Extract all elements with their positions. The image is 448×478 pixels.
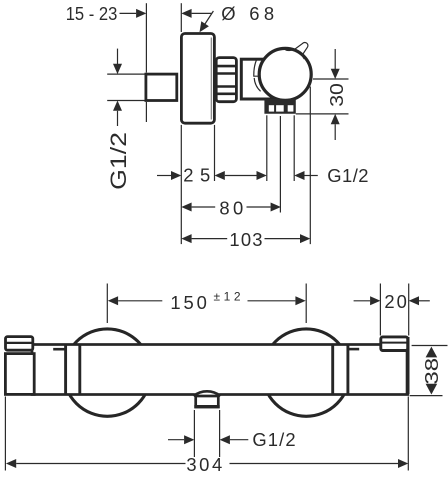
right knob circle: [263, 329, 350, 416]
dim G1/2 right arrow left-pointing: [294, 171, 304, 180]
outlet thread window 3: [288, 105, 294, 111]
dim 38 extension bottom: [410, 395, 443, 397]
leader arrow for diameter 68: [200, 21, 209, 32]
leader line for diameter 68: [203, 11, 213, 27]
dimension 15-23 arrow left-pointing: [181, 9, 191, 18]
dim 103 arrow left-pointing: [181, 234, 191, 243]
dimension 15-23 arrow right-pointing: [136, 9, 146, 18]
dim 304 arrow right-pointing: [398, 459, 408, 468]
outlet stub: [196, 396, 219, 407]
dim 304 line left: [16, 463, 185, 465]
nipple dim stem lower: [117, 111, 119, 126]
dim 38 arrow down: [426, 384, 438, 395]
outlet center line: [279, 116, 281, 213]
extension escutcheon left lower: [180, 125, 182, 244]
dimension 15-23 line left: [120, 12, 137, 14]
knob lever: [286, 42, 308, 59]
svg-text:150: 150: [170, 292, 207, 313]
svg-text:103: 103: [229, 229, 262, 250]
dim G1/2 bottom arrow right-pointing: [184, 435, 194, 444]
dim G1/2 arrow right-pointing: [257, 171, 267, 180]
dim 20 arrow right-pointing: [370, 296, 380, 305]
extension escutcheon right lower: [214, 125, 216, 181]
dim 103 arrow right-pointing: [300, 234, 310, 243]
outlet thread window 2: [276, 105, 284, 111]
dim 30 extension top: [313, 78, 349, 80]
dim 150 extension left: [106, 284, 108, 324]
svg-text:G1/2: G1/2: [252, 429, 295, 450]
left bracket body: [5, 354, 34, 395]
dim 20 arrow left-pointing: [409, 296, 419, 305]
extension line escutcheon left upper: [180, 3, 182, 32]
svg-text:15 - 23: 15 - 23: [66, 3, 118, 24]
outlet stub bottom band: [194, 405, 219, 408]
thread ridge line 4: [216, 93, 236, 96]
thread ridge line 2: [216, 72, 236, 75]
dim 25 arrow left-pointing: [215, 171, 225, 180]
outlet dome eraser: [195, 393, 219, 398]
dim G1/2 bottom stem left: [168, 439, 184, 441]
nipple dim stem upper: [117, 49, 119, 64]
thread ridge line 1: [216, 65, 236, 68]
dim 80 arrow left-pointing: [181, 203, 191, 212]
dimension 15-23 tail: [192, 12, 212, 14]
dim 25 arrow right-pointing: [171, 171, 181, 180]
svg-text:±12: ±12: [214, 290, 241, 304]
extension outlet left: [266, 115, 268, 181]
svg-text:30: 30: [326, 83, 347, 107]
dim 30 arrow up: [331, 114, 340, 124]
dim 38 arrow up: [426, 347, 438, 358]
extension outlet right: [293, 115, 295, 181]
wall nipple: [146, 74, 177, 100]
right collar line inner: [331, 346, 334, 394]
dim 20 stem right: [419, 300, 430, 302]
left collar line outer: [64, 346, 67, 394]
left bracket ear inner line: [6, 342, 33, 344]
left collar line inner: [78, 346, 81, 394]
dim 304 extension right: [407, 397, 409, 471]
svg-text:20: 20: [384, 291, 406, 312]
dim 30 arrow down: [331, 69, 340, 79]
mixer bar: [32, 345, 408, 395]
dim 304 arrow left-pointing: [6, 459, 16, 468]
extension line wall face upper: [145, 3, 147, 72]
bar right end cap: [406, 337, 410, 394]
dim 304 extension left: [4, 397, 6, 471]
dim 103 line right: [265, 238, 301, 240]
right bracket ear inner line: [381, 342, 408, 344]
left bracket ear: [6, 337, 33, 351]
escutcheon inner shade line: [210, 38, 212, 120]
thread ridge line 3: [216, 85, 236, 88]
valve body: [241, 59, 291, 99]
svg-text:38: 38: [421, 358, 442, 385]
dim 30 stem upper: [334, 49, 336, 69]
knob circle: [259, 48, 311, 100]
dim 20 stem left: [354, 300, 371, 302]
outlet block: [264, 99, 295, 114]
svg-text:G1/2: G1/2: [106, 132, 131, 190]
dim G1/2 bottom stem right: [230, 439, 248, 441]
dim 20 extension right: [408, 284, 410, 336]
dim G1/2 bottom arrow left-pointing: [220, 435, 230, 444]
nipple G1/2 extension line bottom: [107, 100, 144, 102]
dim 25 stem left: [157, 175, 171, 177]
dim 30 extension bottom: [296, 113, 349, 115]
nipple dim arrow up: [113, 101, 122, 111]
outlet dome arc: [194, 391, 221, 396]
svg-text:G1/2: G1/2: [327, 165, 368, 186]
dim 150 line left: [118, 300, 162, 302]
knob inner crescent lower: [254, 78, 260, 91]
dim 80 line left: [192, 206, 216, 208]
extension body right: [309, 87, 311, 245]
left tick: [53, 348, 65, 351]
dim 150 arrow right-pointing: [295, 296, 305, 305]
dim 38 extension top: [412, 345, 448, 347]
thread stack: [216, 58, 236, 102]
dim 30 stem lower: [334, 124, 336, 140]
outlet stub extension right: [219, 410, 221, 457]
dim 20 extension left: [379, 284, 381, 336]
right tick: [348, 348, 359, 351]
extension line wall face lower: [145, 102, 147, 122]
dim 25 shared tail: [225, 175, 257, 177]
dim 103 line left: [192, 238, 228, 240]
nipple dim arrow down: [113, 64, 122, 74]
outlet thread window 1: [269, 105, 274, 111]
escutcheon: [181, 34, 214, 124]
outlet stub extension left: [193, 410, 195, 457]
dim 150 extension right: [305, 284, 307, 324]
dim 80 arrow right-pointing: [271, 203, 281, 212]
knob inner crescent upper: [254, 60, 259, 77]
svg-text:Ø: Ø: [221, 3, 235, 24]
right collar line outer: [346, 346, 349, 394]
right bracket ear: [381, 337, 408, 351]
svg-text:304: 304: [186, 454, 222, 475]
dim 150 arrow left-pointing: [108, 296, 118, 305]
dim 80 line right: [247, 206, 271, 208]
dim 150 line right: [248, 300, 296, 302]
nipple G1/2 extension line top: [107, 73, 144, 75]
dim 304 line right: [230, 463, 399, 465]
left knob circle: [64, 329, 151, 416]
dim G1/2 right stem: [305, 175, 318, 177]
